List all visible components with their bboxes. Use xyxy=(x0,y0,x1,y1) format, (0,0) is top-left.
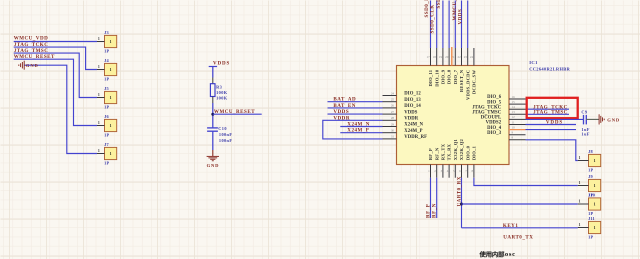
svg-text:1: 1 xyxy=(98,121,100,125)
svg-text:1: 1 xyxy=(98,149,100,153)
svg-text:100K: 100K xyxy=(216,96,228,101)
svg-text:DIO_13: DIO_13 xyxy=(404,98,421,103)
svg-text:DIO_12: DIO_12 xyxy=(404,92,421,97)
svg-text:24: 24 xyxy=(391,91,395,95)
svg-text:C9: C9 xyxy=(581,110,587,115)
svg-text:1: 1 xyxy=(579,181,581,185)
svg-text:DIO_8: DIO_8 xyxy=(447,69,452,84)
svg-text:30: 30 xyxy=(391,129,395,133)
svg-text:J10: J10 xyxy=(588,193,595,198)
svg-text:14: 14 xyxy=(512,105,516,109)
svg-text:11: 11 xyxy=(512,120,515,124)
svg-text:31: 31 xyxy=(391,135,395,139)
svg-text:10: 10 xyxy=(512,125,516,129)
svg-text:26: 26 xyxy=(391,104,395,108)
svg-text:1: 1 xyxy=(594,203,596,207)
svg-text:RF_P: RF_P xyxy=(428,148,433,160)
svg-text:VDDS: VDDS xyxy=(404,110,417,115)
svg-text:J3: J3 xyxy=(104,30,109,35)
svg-text:15: 15 xyxy=(512,100,516,104)
svg-text:1P: 1P xyxy=(104,48,109,53)
svg-text:GND: GND xyxy=(207,163,220,168)
svg-text:1: 1 xyxy=(594,184,596,188)
svg-text:GND: GND xyxy=(26,63,39,68)
svg-text:VDDS: VDDS xyxy=(546,121,563,126)
svg-text:16: 16 xyxy=(512,95,516,99)
svg-text:28: 28 xyxy=(391,116,395,120)
svg-text:X24M_N: X24M_N xyxy=(404,123,423,128)
svg-text:CC2640R2LRHBR: CC2640R2LRHBR xyxy=(529,67,570,72)
svg-text:J6: J6 xyxy=(104,114,109,119)
svg-text:RESET_N: RESET_N xyxy=(459,69,464,92)
svg-text:1: 1 xyxy=(579,223,581,227)
svg-text:DIO_9: DIO_9 xyxy=(441,69,446,84)
svg-text:J9: J9 xyxy=(588,174,593,179)
svg-text:DIO_10: DIO_10 xyxy=(434,69,439,87)
svg-text:TX_RX: TX_RX xyxy=(447,143,452,160)
svg-text:1: 1 xyxy=(579,156,581,160)
svg-text:DIO_14: DIO_14 xyxy=(404,104,421,109)
svg-text:J4: J4 xyxy=(104,58,109,63)
svg-text:RF_P: RF_P xyxy=(426,204,432,218)
svg-text:IC1: IC1 xyxy=(529,60,538,65)
svg-text:DCDC_SW: DCDC_SW xyxy=(472,70,477,95)
svg-text:27: 27 xyxy=(391,110,395,114)
svg-text:1P: 1P xyxy=(104,132,109,137)
svg-text:osc: osc xyxy=(505,251,516,258)
svg-text:1P: 1P xyxy=(588,234,593,239)
svg-text:VDDS: VDDS xyxy=(213,61,230,66)
svg-text:X32K_Q1: X32K_Q1 xyxy=(453,138,458,160)
svg-text:22: 22 xyxy=(458,55,462,59)
svg-text:13: 13 xyxy=(512,110,516,114)
svg-text:1: 1 xyxy=(594,159,596,163)
svg-text:KEY1: KEY1 xyxy=(503,223,518,229)
svg-text:DIO_3: DIO_3 xyxy=(487,131,502,136)
svg-text:SSD0_RX: SSD0_RX xyxy=(436,0,442,9)
svg-text:J5: J5 xyxy=(104,86,109,91)
svg-text:RX_TX: RX_TX xyxy=(441,143,446,160)
svg-text:19: 19 xyxy=(439,55,443,59)
svg-text:1: 1 xyxy=(579,199,581,203)
svg-text:1: 1 xyxy=(110,152,112,156)
svg-text:DIO_0: DIO_0 xyxy=(465,145,470,160)
svg-text:WMCU_VDD: WMCU_VDD xyxy=(14,36,49,42)
svg-text:23: 23 xyxy=(464,55,468,59)
svg-text:1P: 1P xyxy=(588,167,593,172)
svg-text:SSD0_CLK: SSD0_CLK xyxy=(430,4,436,33)
svg-text:1P: 1P xyxy=(104,160,109,165)
svg-text:UART0_TX: UART0_TX xyxy=(503,234,533,240)
svg-text:100nF: 100nF xyxy=(219,138,232,143)
svg-text:DIO_7: DIO_7 xyxy=(453,69,458,84)
svg-text:1: 1 xyxy=(98,65,100,69)
svg-text:20: 20 xyxy=(445,55,449,59)
svg-text:RF_N: RF_N xyxy=(432,203,438,218)
svg-text:VDDS_DCDC: VDDS_DCDC xyxy=(465,70,470,100)
svg-text:1: 1 xyxy=(110,124,112,128)
svg-text:100nF: 100nF xyxy=(219,132,232,137)
svg-text:29: 29 xyxy=(391,122,395,126)
svg-text:X24M_P: X24M_P xyxy=(404,129,422,134)
svg-text:1P: 1P xyxy=(104,104,109,109)
svg-text:UART0_RX: UART0_RX xyxy=(456,176,462,206)
svg-text:1: 1 xyxy=(110,68,112,72)
svg-text:1: 1 xyxy=(98,93,100,97)
svg-text:JTAG_TMSC: JTAG_TMSC xyxy=(533,109,568,115)
svg-text:1uF: 1uF xyxy=(581,131,589,136)
svg-text:1P: 1P xyxy=(104,76,109,81)
svg-text:VDDR_RF: VDDR_RF xyxy=(404,135,427,140)
svg-text:J8: J8 xyxy=(588,149,593,154)
svg-text:X32K_Q2: X32K_Q2 xyxy=(459,138,464,160)
svg-text:17: 17 xyxy=(427,55,431,59)
svg-text:1: 1 xyxy=(110,40,112,44)
svg-text:18: 18 xyxy=(433,55,437,59)
svg-text:100K: 100K xyxy=(216,90,228,95)
svg-text:RF_N: RF_N xyxy=(434,147,439,160)
svg-text:VDDR: VDDR xyxy=(404,117,418,122)
svg-text:1: 1 xyxy=(98,37,100,41)
svg-text:GND: GND xyxy=(607,117,620,122)
svg-text:J11: J11 xyxy=(588,216,595,221)
svg-text:C10: C10 xyxy=(218,126,227,131)
svg-text:1: 1 xyxy=(594,226,596,230)
svg-text:VDDS: VDDS xyxy=(457,9,463,25)
svg-text:DIO_1: DIO_1 xyxy=(472,145,477,160)
svg-text:R3: R3 xyxy=(216,84,222,89)
svg-text:12: 12 xyxy=(512,115,516,119)
svg-text:25: 25 xyxy=(391,98,395,102)
svg-text:DIO_11: DIO_11 xyxy=(428,69,433,86)
svg-text:1: 1 xyxy=(110,96,112,100)
svg-text:24: 24 xyxy=(470,55,474,59)
svg-text:J7: J7 xyxy=(104,142,109,147)
